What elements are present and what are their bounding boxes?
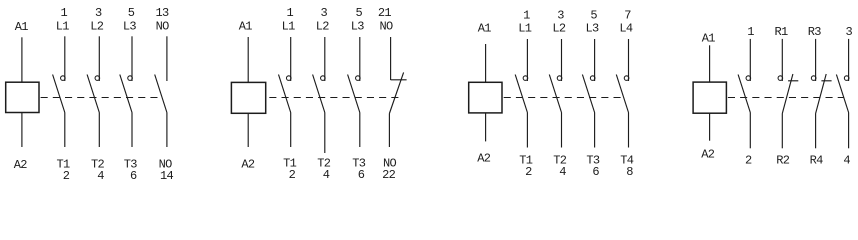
svg-text:R2: R2 xyxy=(776,154,790,168)
terminal label R1 xyxy=(774,25,788,39)
pin number 2 xyxy=(63,169,70,183)
terminal label 3 xyxy=(846,25,853,39)
pin number 2 xyxy=(289,168,296,182)
svg-text:A1: A1 xyxy=(478,22,492,36)
pin number 7 xyxy=(624,8,631,22)
pin number 1 xyxy=(61,6,68,20)
svg-text:A2: A2 xyxy=(241,158,255,172)
svg-text:3: 3 xyxy=(95,6,102,20)
svg-text:6: 6 xyxy=(130,169,137,183)
contactor K2 coil xyxy=(231,37,265,147)
terminal label T2 xyxy=(553,153,567,167)
pin number 3 xyxy=(321,6,328,20)
svg-text:5: 5 xyxy=(128,6,135,20)
svg-text:L1: L1 xyxy=(282,20,296,34)
contactor K1 coil xyxy=(6,37,39,147)
svg-text:A2: A2 xyxy=(701,148,715,162)
svg-text:L1: L1 xyxy=(56,20,70,34)
svg-text:3: 3 xyxy=(321,6,328,20)
K3 NO main contact 1-2 xyxy=(515,39,528,148)
pin number 13 xyxy=(155,6,169,20)
svg-text:3: 3 xyxy=(557,8,564,22)
K1 NO main contact 3-4 xyxy=(87,36,100,147)
terminal label T1 xyxy=(519,153,533,167)
K2 NC aux contact 21-22 xyxy=(389,37,406,147)
svg-text:A1: A1 xyxy=(15,20,29,34)
terminal label L1 xyxy=(56,20,70,34)
terminal label L3 xyxy=(585,22,599,36)
svg-text:A1: A1 xyxy=(239,20,253,34)
svg-text:L2: L2 xyxy=(552,22,566,36)
terminal label L2 xyxy=(552,22,566,36)
svg-text:5: 5 xyxy=(356,6,363,20)
pin number 3 xyxy=(557,8,564,22)
pin number 1 xyxy=(523,8,530,22)
terminal label 1 xyxy=(747,25,754,39)
terminal label L4 xyxy=(619,22,633,36)
terminal label L3 xyxy=(123,20,137,34)
terminal label T1 xyxy=(283,157,297,171)
svg-text:4: 4 xyxy=(843,154,850,168)
K3 mechanical linkage (dashed) xyxy=(504,97,621,99)
terminal label T3 xyxy=(352,157,366,171)
pin number 5 xyxy=(356,6,363,20)
pin number 5 xyxy=(128,6,135,20)
pin number 22 xyxy=(382,168,396,182)
svg-text:L2: L2 xyxy=(90,20,104,34)
terminal label 2 xyxy=(745,154,752,168)
svg-text:A2: A2 xyxy=(14,158,28,172)
K1 NO main contact 1-2 xyxy=(53,36,66,147)
contactor K4 coil xyxy=(693,45,726,140)
pin number 4 xyxy=(97,169,104,183)
terminal label T3 xyxy=(124,157,138,171)
pin number 1 xyxy=(286,6,293,20)
svg-text:4: 4 xyxy=(323,168,330,182)
K2 NO main contact 5-6 xyxy=(348,37,361,147)
pin number 6 xyxy=(592,165,599,179)
svg-text:A2: A2 xyxy=(477,152,491,166)
coil K2 terminal label A2 xyxy=(241,158,255,172)
terminal label L2 xyxy=(316,20,330,34)
svg-text:4: 4 xyxy=(97,169,104,183)
svg-text:L2: L2 xyxy=(316,20,330,34)
svg-text:R1: R1 xyxy=(774,25,788,39)
K4 mechanical linkage (dashed) xyxy=(728,97,844,99)
svg-text:L3: L3 xyxy=(585,22,599,36)
svg-text:22: 22 xyxy=(382,168,396,182)
svg-text:5: 5 xyxy=(590,8,597,22)
svg-text:2: 2 xyxy=(289,168,296,182)
pin number 6 xyxy=(130,169,137,183)
svg-text:L3: L3 xyxy=(351,20,365,34)
svg-text:R3: R3 xyxy=(808,25,822,39)
svg-text:1: 1 xyxy=(747,25,754,39)
svg-text:3: 3 xyxy=(846,25,853,39)
coil K1 terminal label A2 xyxy=(14,158,28,172)
pin number 21 xyxy=(378,6,392,20)
terminal label NO xyxy=(159,157,173,171)
svg-text:7: 7 xyxy=(624,8,631,22)
svg-text:13: 13 xyxy=(155,6,169,20)
svg-text:4: 4 xyxy=(559,165,566,179)
svg-text:6: 6 xyxy=(592,165,599,179)
K3 NO main contact 7-8 xyxy=(616,39,629,148)
terminal label L3 xyxy=(351,20,365,34)
K4 NO contact 3-4 xyxy=(836,39,849,148)
svg-text:2: 2 xyxy=(525,165,532,179)
svg-text:L3: L3 xyxy=(123,20,137,34)
K3 NO main contact 5-6 xyxy=(582,39,595,148)
contactor K3 coil xyxy=(469,44,502,141)
terminal label R3 xyxy=(808,25,822,39)
coil K2 terminal label A1 xyxy=(239,20,253,34)
svg-text:1: 1 xyxy=(286,6,293,20)
pin number 4 xyxy=(559,165,566,179)
svg-text:8: 8 xyxy=(626,165,633,179)
K1 NO aux contact 13-14 xyxy=(155,36,167,147)
K1 mechanical linkage (dashed) xyxy=(41,97,160,99)
pin number 14 xyxy=(160,169,174,183)
terminal label NO xyxy=(383,157,397,171)
terminal label L2 xyxy=(90,20,104,34)
svg-text:A1: A1 xyxy=(702,32,716,46)
terminal label 4 xyxy=(843,154,850,168)
svg-text:R4: R4 xyxy=(810,154,824,168)
svg-text:1: 1 xyxy=(61,6,68,20)
terminal label L1 xyxy=(518,22,532,36)
pin number 2 xyxy=(525,165,532,179)
K4 NC contact R3-R4 xyxy=(811,39,831,148)
svg-text:21: 21 xyxy=(378,6,392,20)
terminal label R4 xyxy=(810,154,824,168)
terminal label R2 xyxy=(776,154,790,168)
svg-text:NO: NO xyxy=(379,20,393,34)
svg-text:NO: NO xyxy=(156,20,170,34)
K2 NO main contact 3-4 xyxy=(313,37,326,153)
svg-text:14: 14 xyxy=(160,169,174,183)
coil K3 terminal label A1 xyxy=(478,22,492,36)
coil K1 terminal label A1 xyxy=(15,20,29,34)
K4 NO contact 1-2 xyxy=(738,39,751,148)
pin number 4 xyxy=(323,168,330,182)
pin number 3 xyxy=(95,6,102,20)
svg-text:L4: L4 xyxy=(619,22,633,36)
terminal label T4 xyxy=(620,153,634,167)
coil K3 terminal label A2 xyxy=(477,152,491,166)
terminal label NO xyxy=(156,20,170,34)
terminal label T2 xyxy=(317,157,331,171)
K2 mechanical linkage (dashed) xyxy=(269,97,398,99)
pin number 5 xyxy=(590,8,597,22)
terminal label T1 xyxy=(56,157,70,171)
coil K4 terminal label A1 xyxy=(702,32,716,46)
pin number 6 xyxy=(358,168,365,182)
svg-text:1: 1 xyxy=(523,8,530,22)
K3 NO main contact 3-4 xyxy=(549,39,562,148)
terminal label L1 xyxy=(282,20,296,34)
pin number 8 xyxy=(626,165,633,179)
K2 NO main contact 1-2 xyxy=(279,37,292,147)
terminal label NO xyxy=(379,20,393,34)
K4 NC contact R1-R2 xyxy=(778,39,798,148)
svg-text:2: 2 xyxy=(63,169,70,183)
K1 NO main contact 5-6 xyxy=(120,36,133,147)
terminal label T3 xyxy=(586,153,600,167)
svg-text:6: 6 xyxy=(358,168,365,182)
terminal label T2 xyxy=(91,157,105,171)
svg-text:L1: L1 xyxy=(518,22,532,36)
svg-text:2: 2 xyxy=(745,154,752,168)
coil K4 terminal label A2 xyxy=(701,148,715,162)
